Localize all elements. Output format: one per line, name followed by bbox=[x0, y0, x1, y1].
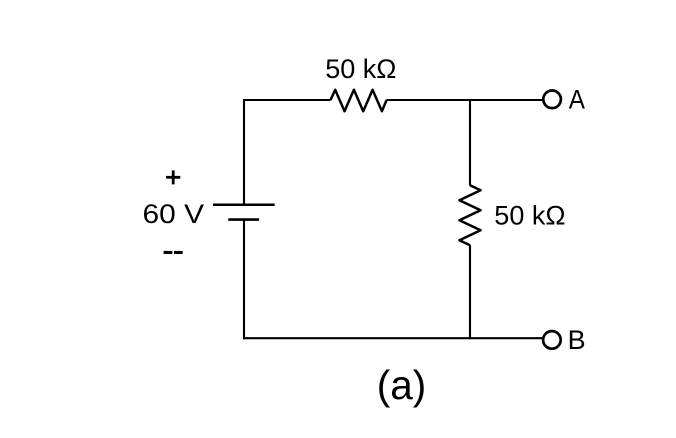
terminal B open circle bbox=[543, 331, 561, 349]
resistor R1 50 kOhm horizontal bbox=[331, 90, 387, 111]
wire: top rail left segment bbox=[243, 99, 331, 101]
svg-text:50 kΩ: 50 kΩ bbox=[325, 54, 396, 84]
svg-text:B: B bbox=[568, 325, 586, 355]
svg-text:A: A bbox=[569, 85, 585, 115]
wire: left vertical from battery + plate up to top-left corner bbox=[243, 99, 245, 205]
svg-text:(a): (a) bbox=[377, 362, 427, 408]
wire: top rail right segment from R1 to terminal A bbox=[387, 99, 543, 101]
battery V1 short plate (negative) bbox=[228, 218, 259, 221]
terminal A open circle bbox=[543, 91, 561, 109]
svg-text:60 V: 60 V bbox=[143, 199, 205, 229]
wire: left vertical from battery - plate down to bottom-left corner bbox=[243, 220, 245, 340]
label: - polarity of V1 (double dash) bbox=[164, 251, 183, 254]
resistor R2 50 kOhm vertical bbox=[459, 185, 480, 245]
wire: vertical from R2 down to bottom rail bbox=[469, 245, 471, 339]
label: + polarity of V1 bbox=[166, 170, 180, 184]
wire: vertical branch from top node down to R2 bbox=[469, 99, 471, 186]
svg-text:50 kΩ: 50 kΩ bbox=[494, 201, 565, 231]
wire: bottom rail from bottom-left corner to terminal B bbox=[243, 337, 543, 339]
battery V1 long plate (positive) bbox=[213, 203, 275, 206]
